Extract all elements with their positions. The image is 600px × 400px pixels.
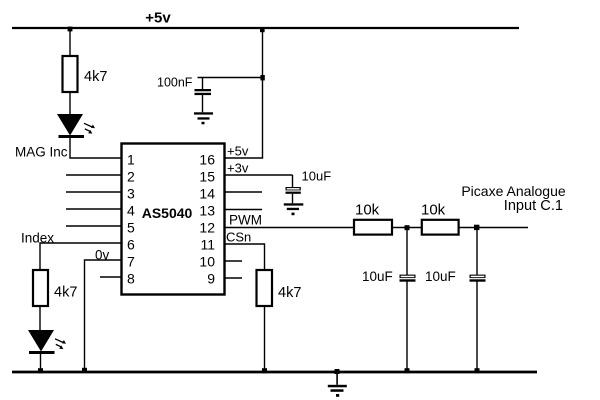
capacitor C3 10uF (polarized) bbox=[400, 275, 416, 282]
wire PWM pin 12 to R3 bbox=[225, 227, 355, 229]
resistor R1 4k7 (top left) bbox=[63, 56, 78, 92]
wire pin 13 stub bbox=[225, 209, 262, 211]
wire pin 6 Index bbox=[40, 243, 121, 270]
wire R4 to output bbox=[459, 227, 528, 229]
svg-text:4k7: 4k7 bbox=[54, 285, 77, 301]
svg-text:14: 14 bbox=[199, 186, 215, 202]
wire R3 to R4 bbox=[392, 227, 422, 229]
svg-text:11: 11 bbox=[200, 237, 215, 253]
node junction R5 at 0v rail bbox=[262, 368, 267, 373]
svg-text:10uF: 10uF bbox=[425, 269, 456, 284]
wire pin 14 stub bbox=[225, 191, 262, 193]
LED D1 MAG Inc bbox=[57, 114, 84, 138]
ground symbol (C1) bbox=[194, 112, 213, 124]
ground symbol (C2) bbox=[284, 203, 304, 215]
capacitor C2 10uF (polarized) bbox=[286, 175, 301, 203]
wire pin 7 to 0v rail bbox=[85, 260, 122, 372]
svg-text:9: 9 bbox=[207, 271, 215, 287]
svg-text:+5v: +5v bbox=[227, 144, 249, 159]
svg-text:13: 13 bbox=[199, 203, 215, 219]
wire pin 5 stub bbox=[66, 225, 121, 227]
svg-text:10k: 10k bbox=[355, 202, 380, 219]
wire 100nF to +5v drop bbox=[198, 77, 263, 79]
svg-text:AS5040: AS5040 bbox=[142, 205, 193, 221]
svg-text:3: 3 bbox=[127, 186, 135, 202]
svg-text:100nF: 100nF bbox=[157, 76, 193, 90]
wire pin 9 stub bbox=[225, 277, 242, 279]
svg-text:15: 15 bbox=[199, 169, 215, 185]
ground rail 0v (bottom bus) bbox=[12, 371, 537, 374]
wire pin 8 stub bbox=[100, 276, 121, 278]
wire pin 10 stub bbox=[225, 260, 242, 262]
capacitor C1 100nF bbox=[195, 78, 212, 113]
svg-text:4: 4 bbox=[127, 203, 135, 219]
LED D2 light arrows bbox=[55, 339, 66, 349]
capacitor C4 10uF (polarized) bbox=[470, 275, 486, 282]
power rail +5v (top bus) bbox=[12, 27, 519, 29]
resistor R4 10k bbox=[422, 220, 459, 235]
svg-text:MAG Inc: MAG Inc bbox=[15, 145, 68, 160]
svg-text:10: 10 bbox=[199, 254, 215, 270]
wire pin 4 stub bbox=[66, 208, 121, 210]
node junction C4 at 0v rail bbox=[475, 368, 480, 373]
svg-text:7: 7 bbox=[127, 254, 135, 270]
svg-text:12: 12 bbox=[199, 220, 215, 236]
wire R1 to LED D1 bbox=[69, 92, 71, 114]
IC U1 AS5040 body bbox=[122, 144, 225, 295]
resistor R3 10k bbox=[354, 220, 392, 235]
node junction 100nF tap bbox=[260, 75, 264, 80]
wire pin 2 stub bbox=[66, 174, 121, 176]
node junction D2 at 0v rail bbox=[38, 368, 43, 373]
LED D2 Index bbox=[28, 330, 55, 354]
svg-text:+3v: +3v bbox=[227, 161, 249, 176]
wire R4 junction to C4 bbox=[476, 228, 478, 276]
svg-text:4k7: 4k7 bbox=[278, 285, 301, 301]
node junction +5v rail drop bbox=[260, 28, 265, 33]
node junction 0v wire at rail bbox=[82, 368, 87, 373]
wire D1 to pin 1 bbox=[70, 138, 121, 158]
ground symbol (0v rail) bbox=[328, 373, 347, 397]
resistor R5 4k7 (CSn pulldown) bbox=[257, 270, 273, 306]
node junction R3/C3 bbox=[405, 225, 410, 230]
wire R3 junction to C3 bbox=[406, 228, 408, 276]
wire pin 3 stub bbox=[66, 191, 121, 193]
svg-text:PWM: PWM bbox=[229, 213, 262, 228]
svg-text:2: 2 bbox=[127, 169, 135, 185]
wire +5v rail to R1 bbox=[69, 28, 71, 56]
svg-text:6: 6 bbox=[127, 237, 135, 253]
node junction R4/C4 bbox=[474, 225, 479, 230]
wire C4 to 0v rail bbox=[476, 282, 478, 373]
wire C3 to 0v rail bbox=[406, 282, 408, 373]
wire D2 to 0v rail bbox=[40, 354, 42, 372]
LED D1 light arrows bbox=[84, 123, 95, 133]
svg-text:10uF: 10uF bbox=[302, 169, 332, 184]
node junction C3 at 0v rail bbox=[405, 368, 410, 373]
svg-text:Input C.1: Input C.1 bbox=[504, 198, 563, 214]
svg-text:16: 16 bbox=[199, 152, 215, 168]
svg-text:+5v: +5v bbox=[145, 10, 171, 27]
wire pin 11 CSn to R5 bbox=[225, 244, 265, 270]
wire R5 to 0v rail bbox=[264, 306, 266, 372]
svg-text:CSn: CSn bbox=[226, 230, 251, 245]
svg-text:10uF: 10uF bbox=[362, 269, 393, 284]
svg-text:4k7: 4k7 bbox=[84, 69, 107, 85]
wire R2 to LED D2 bbox=[39, 306, 41, 330]
svg-text:10k: 10k bbox=[421, 202, 446, 219]
svg-text:5: 5 bbox=[127, 220, 135, 236]
node junction on +5v rail at R1 bbox=[68, 27, 73, 32]
wire pin 16 to +5v rail bbox=[225, 28, 263, 158]
svg-text:1: 1 bbox=[127, 152, 135, 168]
node junction ground symbol at 0v rail bbox=[335, 369, 340, 374]
svg-text:8: 8 bbox=[127, 271, 135, 287]
resistor R2 4k7 (Index LED) bbox=[33, 270, 48, 306]
svg-text:Picaxe Analogue: Picaxe Analogue bbox=[461, 183, 566, 199]
wire pin 15 to C2 bbox=[225, 174, 293, 176]
